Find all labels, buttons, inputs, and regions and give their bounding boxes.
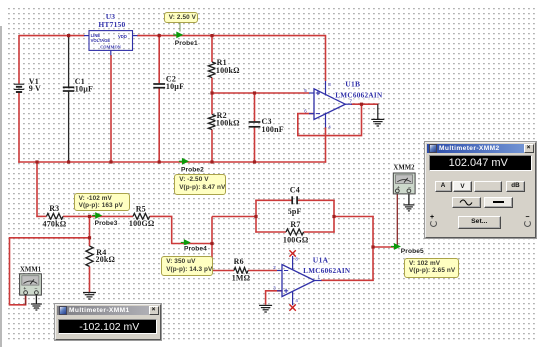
svg-text:10µF: 10µF xyxy=(75,84,93,93)
junction rail C2 xyxy=(158,160,161,163)
svg-text:100kΩ: 100kΩ xyxy=(216,119,240,128)
junction rail C1 xyxy=(67,160,70,163)
ground XMM1 xyxy=(31,303,42,305)
wire R4 top lead xyxy=(89,216,91,246)
junction U1B out xyxy=(360,103,363,106)
svg-text:1MΩ: 1MΩ xyxy=(232,274,251,283)
junction rail common xyxy=(109,160,112,163)
wire U1B output xyxy=(351,103,378,105)
wire U1A plus input to ground xyxy=(266,291,283,305)
wire node up to feedback box xyxy=(211,217,213,245)
regulator U3 HT7150 xyxy=(89,31,133,51)
probe Probe3 xyxy=(95,212,102,219)
wire C1 bottom lead (black pin) xyxy=(68,92,70,162)
svg-text:R5: R5 xyxy=(136,204,146,213)
wire rail to R3 xyxy=(36,215,46,217)
wire R1-R2 middle node xyxy=(211,78,213,115)
svg-text:HT7150: HT7150 xyxy=(98,20,125,29)
svg-text:COMMON: COMMON xyxy=(100,45,120,50)
wire mid node to U1B plus input xyxy=(212,92,309,94)
multimeter icon XMM1 xyxy=(20,274,42,295)
op-amp U1B xyxy=(314,89,345,120)
svg-text:470kΩ: 470kΩ xyxy=(43,220,67,229)
wire R5 to corner xyxy=(150,215,173,217)
junction C3 top xyxy=(253,91,256,94)
wire C3 bottom lead xyxy=(254,127,256,162)
wire XMM2 plus lead xyxy=(396,193,398,248)
resistor R3 xyxy=(47,213,64,219)
svg-text:20kΩ: 20kΩ xyxy=(96,255,116,264)
junction rail R3 xyxy=(35,160,38,163)
svg-text:C4: C4 xyxy=(290,186,300,195)
svg-text:Probe4: Probe4 xyxy=(184,246,207,253)
wire feedback box top (C4 leads) xyxy=(255,199,291,201)
wire XMM2 minus lead xyxy=(408,193,410,205)
wire R1 top lead xyxy=(211,36,213,62)
svg-text:XMM1: XMM1 xyxy=(20,266,42,273)
wire XMM1 plus lead xyxy=(25,295,27,305)
junction box left xyxy=(254,215,257,218)
wire C3 top lead xyxy=(254,93,256,121)
capacitor C3 xyxy=(249,121,261,123)
svg-text:Probe3: Probe3 xyxy=(95,220,118,227)
svg-text:Probe1: Probe1 xyxy=(175,40,198,47)
wire U1A output xyxy=(321,279,374,281)
svg-text:VOLTAGE: VOLTAGE xyxy=(91,38,111,43)
wire R6 to U1A minus input xyxy=(248,270,277,272)
wire probe4 run xyxy=(172,243,213,245)
probe Probe1 xyxy=(176,32,183,39)
resistor R2 xyxy=(208,115,215,130)
wire battery bottom lead xyxy=(18,92,20,163)
multimeter icon XMM2 xyxy=(393,173,415,194)
wire node down to R6 xyxy=(211,243,213,271)
wire corner down to probe4 run xyxy=(171,216,173,244)
junction probe4 node xyxy=(210,242,213,245)
svg-text:U1B: U1B xyxy=(345,80,360,89)
junction rail C3 xyxy=(253,160,256,163)
svg-text:100nF: 100nF xyxy=(262,125,284,134)
wire U1B V- drop xyxy=(325,127,327,163)
ground U1A plus input xyxy=(259,304,272,306)
junction rail R2 xyxy=(210,160,213,163)
wire C1 top lead (black pin) xyxy=(68,36,70,87)
ground XMM2 xyxy=(403,204,414,206)
junction box right xyxy=(332,215,335,218)
terminals xyxy=(430,214,434,221)
resistor R6 xyxy=(234,268,248,274)
set button xyxy=(458,216,502,229)
wire box to output riser xyxy=(334,216,374,218)
svg-text:R3: R3 xyxy=(49,204,59,213)
junction R1R2 mid xyxy=(210,91,213,94)
capacitor C2 xyxy=(153,83,165,85)
probe Probe5 xyxy=(394,243,401,250)
probe Probe2 xyxy=(182,158,189,165)
wire XMM1 minus lead xyxy=(35,295,37,304)
svg-text:100kΩ: 100kΩ xyxy=(216,66,240,75)
wire bottom rail xyxy=(18,161,326,163)
svg-text:VDD: VDD xyxy=(118,34,127,39)
capacitor C1 xyxy=(63,86,75,88)
op-amp U1A xyxy=(282,265,315,297)
battery V1 xyxy=(14,83,24,85)
svg-text:R6: R6 xyxy=(234,257,244,266)
wire C2 bottom lead xyxy=(158,88,160,162)
resistor R7 xyxy=(286,229,304,235)
svg-text:100GΩ: 100GΩ xyxy=(283,235,309,244)
ground R4 xyxy=(83,292,96,294)
svg-text:Probe5: Probe5 xyxy=(401,248,424,255)
probe value label probe5 xyxy=(404,258,459,278)
junction R3 R4 R5 xyxy=(88,215,91,218)
wire R3 to node xyxy=(63,215,133,217)
wire top rail left (battery to U3) xyxy=(19,35,85,37)
probe value label probe4 xyxy=(161,256,213,276)
multimeter window XMM1 xyxy=(55,304,161,340)
wire feedback box bottom (R7 leads) xyxy=(255,231,286,233)
wire probe5 run xyxy=(372,246,398,248)
junction C2 top xyxy=(158,34,161,37)
svg-text:5pF: 5pF xyxy=(288,207,302,216)
probe value label probe3 xyxy=(74,193,130,212)
wire U1B V+ supply drop xyxy=(325,36,327,81)
wire battery top lead xyxy=(18,35,20,84)
mode buttons xyxy=(435,181,452,192)
svg-text:9 V: 9 V xyxy=(29,84,41,93)
svg-text:Probe2: Probe2 xyxy=(181,166,204,173)
workspace left edge xyxy=(0,26,2,347)
svg-text:10µF: 10µF xyxy=(166,82,184,91)
junction probe5 xyxy=(371,245,374,248)
svg-text:U1A: U1A xyxy=(313,255,329,264)
probe1 stem xyxy=(179,23,181,32)
svg-text:100GΩ: 100GΩ xyxy=(129,219,155,228)
svg-text:R7: R7 xyxy=(290,220,300,229)
wire C2 top lead xyxy=(158,36,160,84)
resistor R1 xyxy=(208,62,215,78)
junction R1 top xyxy=(210,34,213,37)
resistor R5 xyxy=(133,213,150,219)
junction R4 XMM1 xyxy=(88,236,91,239)
wire feedback box right edge xyxy=(333,200,335,233)
probe Probe4 xyxy=(184,239,191,246)
wire R3 drop from rail xyxy=(36,161,38,217)
svg-text:LMC6062AIN: LMC6062AIN xyxy=(303,267,351,275)
wire node to XMM1 (left run) xyxy=(10,238,90,305)
wire output riser xyxy=(372,216,374,281)
waveform buttons xyxy=(452,197,482,208)
svg-text:XMM2: XMM2 xyxy=(393,165,415,172)
junction battery/C1 top xyxy=(67,34,70,37)
multimeter window XMM2 xyxy=(425,142,536,238)
wire R4 bottom lead xyxy=(89,266,91,292)
resistor R4 xyxy=(86,246,93,266)
wire feedback box left edge xyxy=(255,200,257,233)
capacitor C4 xyxy=(291,196,293,204)
probe value label probe1 xyxy=(164,12,199,23)
svg-text:LMC6062AIN: LMC6062AIN xyxy=(335,91,383,99)
ground U1B output xyxy=(377,104,379,119)
U1A no-connect X marks xyxy=(289,250,295,256)
wire U3 COMMON drop xyxy=(110,55,112,162)
probe value label probe2 xyxy=(174,174,226,195)
wire U1B feedback loop xyxy=(298,104,362,135)
wire top rail right (U3 VDD to corner) xyxy=(137,35,326,37)
wire R2 bottom lead xyxy=(211,130,213,163)
